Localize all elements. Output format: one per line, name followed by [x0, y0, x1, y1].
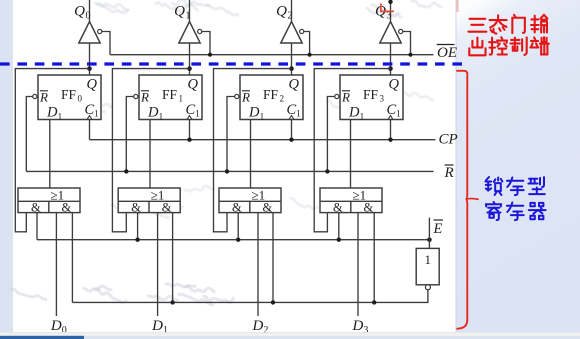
svg-text:Q: Q: [87, 77, 98, 93]
svg-text:2: 2: [280, 94, 285, 104]
svg-text:&: &: [263, 200, 273, 214]
flip-flop FF3 box: [340, 75, 403, 120]
enable bubble of G1: [198, 29, 202, 33]
svg-text:C: C: [186, 102, 196, 118]
enable bubble of G0: [98, 29, 102, 33]
svg-text:FF: FF: [61, 87, 77, 102]
red caption line1 san-tai-men-shu: [468, 15, 547, 34]
wire buffer G3 input from FF3 Q: [390, 43, 392, 75]
wire D0 riser: [55, 213, 57, 316]
faint red streak top right: [457, 0, 459, 12]
node R junction 3: [325, 169, 329, 173]
wire FF0 R-bar to R rail: [26, 97, 32, 172]
svg-text:1: 1: [360, 113, 365, 123]
node Q3 feedback junction: [388, 66, 393, 71]
svg-text:3: 3: [380, 94, 385, 104]
node CP junction 2: [289, 138, 293, 142]
wire FF2 R-bar to R rail: [227, 97, 235, 172]
node E-bar rail junction 1: [170, 300, 174, 304]
wire E-bar riser cell 3: [373, 213, 375, 303]
svg-text:R: R: [39, 90, 48, 105]
gate block 1 outline (OR over ANDs): [118, 188, 180, 213]
svg-text:1: 1: [396, 110, 401, 120]
svg-text:&: &: [364, 200, 374, 214]
wire FF3 R-bar to R rail: [327, 97, 334, 172]
wire G2 enable: [304, 32, 310, 55]
watermark flipflop row: [65, 92, 113, 112]
svg-text:1: 1: [186, 11, 191, 22]
red annotation mark at Q3: [381, 4, 394, 12]
svg-text:1: 1: [159, 113, 164, 123]
node R junction 1: [124, 169, 128, 173]
svg-text:D: D: [352, 318, 364, 334]
wire FF1 C1 to CP rail: [189, 120, 191, 140]
svg-text:1: 1: [94, 110, 99, 120]
svg-text:R: R: [444, 165, 454, 181]
scrollbar gray band: [0, 333, 580, 336]
node OE junction 1: [208, 53, 212, 57]
wire Q2 output vertical: [291, 0, 293, 22]
slide edge line: [455, 0, 457, 332]
blue dashed OE section separator: [0, 62, 465, 65]
wire OE rail: [110, 54, 434, 56]
wire D2 riser: [257, 213, 259, 316]
wire CP rail: [90, 139, 436, 141]
svg-text:Q: Q: [276, 4, 287, 20]
svg-text:D: D: [151, 318, 163, 334]
clock edge marker FF3: [388, 116, 393, 120]
wire inverter output: [72, 290, 428, 303]
svg-text:CP: CP: [439, 132, 458, 148]
tri-state buffer G0: [79, 22, 100, 44]
wire FF3 C1 to CP rail: [390, 120, 392, 140]
enable bubble of G2: [300, 29, 304, 33]
clock edge marker FF1: [187, 116, 192, 120]
left window margin strip: [0, 0, 13, 333]
inverter output bubble: [425, 285, 430, 290]
wire E input drop cell 2: [237, 213, 239, 240]
node E-bar rail junction 3: [372, 300, 376, 304]
svg-text:D: D: [248, 105, 260, 121]
svg-text:E: E: [433, 221, 443, 237]
reset bubble FF1: [134, 94, 138, 98]
watermark lower row: [11, 284, 234, 305]
wire G0 enable: [102, 32, 110, 55]
wire FF0 D1 from OR gate: [49, 120, 51, 189]
svg-text:1: 1: [296, 110, 301, 120]
wire Q0 feedback loop: [15, 69, 89, 232]
wire FF1 R-bar to R rail: [126, 97, 133, 172]
gate block 3 outline (OR over ANDs): [320, 188, 382, 213]
tri-state buffer G3: [380, 22, 401, 44]
wire E input drop cell 3: [338, 213, 340, 240]
flip-flop FF1 box: [139, 75, 202, 120]
node OE junction 2: [308, 53, 312, 57]
svg-text:1: 1: [179, 94, 184, 104]
svg-text:Q: Q: [174, 4, 185, 20]
node E rail junction 1: [135, 238, 139, 242]
wire E input drop cell 1: [137, 213, 139, 240]
node top of Q3 wire: [388, 0, 392, 4]
wire Q1 output vertical: [189, 0, 191, 22]
wire E input drop cell 0: [36, 213, 38, 240]
svg-text:D: D: [50, 318, 62, 334]
svg-text:&: &: [162, 200, 172, 214]
enable bubble of G3: [399, 29, 403, 33]
wire buffer G0 input from FF0 Q: [89, 43, 91, 75]
wire D3 riser: [357, 213, 359, 316]
wire Q0 output vertical: [89, 0, 91, 22]
svg-text:1: 1: [260, 113, 265, 123]
wire G1 enable: [202, 32, 210, 55]
reset bubble FF3: [335, 94, 339, 98]
node Q0 feedback junction: [87, 66, 92, 71]
reset bubble FF2: [235, 94, 239, 98]
red caption line2 chu-kong-zhi-duan: [469, 37, 549, 55]
wire Q3 output vertical: [390, 0, 392, 22]
gate block 2 outline (OR over ANDs): [219, 188, 281, 213]
node E rail junction 3: [337, 238, 341, 242]
svg-text:1: 1: [58, 113, 63, 123]
right slide background gradient: [456, 0, 580, 332]
node Q2 feedback junction: [289, 66, 294, 71]
svg-text:&: &: [131, 200, 141, 214]
wire Q1 feedback loop: [112, 69, 189, 232]
node R junction 2: [225, 169, 229, 173]
wire buffer G1 input from FF1 Q: [189, 43, 191, 75]
node CP junction 3: [388, 138, 392, 142]
watermark right mid: [326, 85, 434, 110]
clock edge marker FF0: [87, 116, 92, 120]
node OE junction 3: [408, 53, 412, 57]
svg-text:R: R: [241, 90, 250, 105]
watermark top row: [94, 0, 442, 17]
wire E-bar riser cell 1: [172, 213, 174, 303]
wire FF2 C1 to CP rail: [291, 120, 293, 140]
wire FF2 D1 from OR gate: [250, 120, 252, 189]
svg-text:1: 1: [425, 252, 432, 267]
red brace: [456, 71, 479, 329]
svg-text:R: R: [341, 90, 350, 105]
inverter U1 box: [416, 248, 439, 284]
svg-text:D: D: [252, 318, 264, 334]
svg-text:FF: FF: [162, 87, 178, 102]
svg-text:&: &: [232, 200, 242, 214]
svg-text:&: &: [333, 200, 343, 214]
svg-text:D: D: [147, 105, 159, 121]
clock edge marker FF2: [289, 116, 294, 120]
wire buffer G2 input from FF2 Q: [291, 43, 293, 75]
flip-flop FF0 box: [38, 75, 101, 120]
svg-text:D: D: [46, 105, 58, 121]
node E-bar rail junction 2: [271, 300, 275, 304]
wire FF3 D1 from OR gate: [350, 120, 352, 189]
node CP junction 1: [187, 138, 191, 142]
svg-text:R: R: [140, 90, 149, 105]
reset bubble FF0: [33, 94, 37, 98]
wire E rail: [37, 239, 429, 241]
gate block 0 outline (OR over ANDs): [18, 188, 80, 213]
svg-text:FF: FF: [263, 87, 279, 102]
flip-flop FF2 box: [240, 75, 303, 120]
svg-text:&: &: [62, 200, 72, 214]
tri-state buffer G2: [281, 22, 302, 44]
tri-state buffer G1: [179, 22, 200, 44]
scrollbar thumb: [0, 336, 84, 339]
wire G3 enable: [403, 32, 411, 55]
scrollbar track row: [0, 336, 580, 339]
svg-text:&: &: [31, 200, 41, 214]
svg-text:0: 0: [78, 94, 83, 104]
svg-text:D: D: [348, 105, 360, 121]
wire Q3 feedback loop: [314, 69, 390, 232]
blue caption line1 suo-cun-xing: [485, 177, 544, 195]
wire R rail: [26, 170, 433, 172]
svg-text:Q: Q: [74, 4, 85, 20]
wire E-bar riser cell 2: [272, 213, 274, 303]
wire E-bar stub: [428, 218, 430, 249]
svg-text:0: 0: [86, 11, 91, 22]
svg-text:OE: OE: [437, 45, 457, 61]
svg-text:2: 2: [288, 11, 293, 22]
svg-text:1: 1: [195, 110, 200, 120]
node E rail to inverter junction: [427, 237, 432, 242]
wire FF1 D1 from OR gate: [149, 120, 151, 189]
wire E-bar riser cell 0: [71, 213, 73, 303]
watermark middle row: [111, 186, 318, 218]
svg-text:Q: Q: [289, 77, 300, 93]
svg-text:FF: FF: [363, 87, 379, 102]
node Q1 feedback junction: [187, 66, 192, 71]
wire D1 riser: [157, 213, 159, 316]
node E rail junction 2: [236, 238, 240, 242]
blue caption line2 ji-cun-qi: [486, 202, 546, 220]
svg-text:C: C: [387, 102, 397, 118]
svg-text:Q: Q: [188, 77, 199, 93]
wire FF0 C1 to CP rail: [89, 120, 91, 140]
svg-text:Q: Q: [389, 77, 400, 93]
wire Q2 feedback loop: [214, 69, 292, 232]
